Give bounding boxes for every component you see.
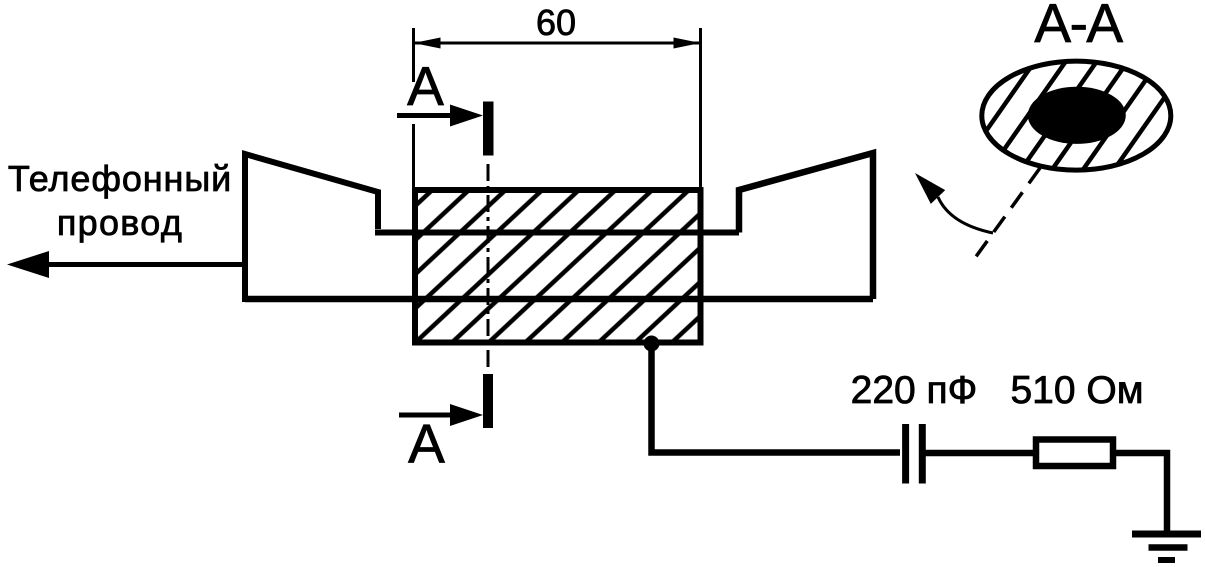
svg-text:Телефонный: Телефонный [8,158,232,199]
wire: resistor to ground [1113,453,1167,532]
svg-text:А: А [407,55,444,117]
node: junction dot on tube [644,336,660,352]
wire: lower conductor through tube [245,296,873,303]
svg-text:220 пФ: 220 пФ [851,369,978,412]
wire: capacitor to resistor [925,450,1034,457]
section view trace line (dashed) [971,168,1040,264]
ferrite tube (hatched section) [415,190,701,343]
label: Телефонный провод [8,158,232,243]
section line A-A (dash-dot centre line) [487,164,490,372]
wire: node down and right to capacitor [652,344,901,453]
capacitor C1 220 пФ [906,424,923,484]
svg-text:60: 60 [536,2,576,43]
svg-text:провод: провод [57,202,183,243]
left cord flare [245,154,378,302]
section view: ferrite ring cross-section (hatched ellipse) [982,61,1171,170]
svg-text:510 Ом: 510 Ом [1010,369,1143,412]
section view: cord cross-section (solid ellipse) [1028,87,1126,144]
svg-text:А-А: А-А [1034,0,1123,54]
wire: upper conductor through tube [375,230,739,236]
section mark A (bottom) [399,374,493,475]
svg-text:А: А [408,413,445,475]
right cord flare [739,153,873,299]
section view direction arrow (curved) [915,173,993,233]
wire: telephone lead with left arrow [7,251,246,278]
section mark A (top) [397,55,494,156]
ground [1132,534,1201,560]
resistor R1 510 Ом [1036,440,1113,467]
dimension 60 [414,2,701,187]
